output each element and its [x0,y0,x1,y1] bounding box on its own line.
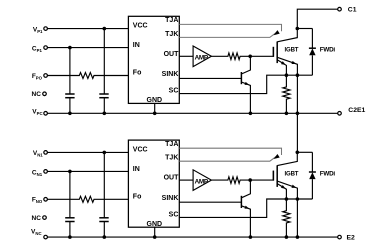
svg-text:P1: P1 [37,29,43,34]
svg-text:NC: NC [32,215,42,222]
svg-text:PO: PO [36,75,43,80]
svg-text:C1: C1 [348,7,357,14]
svg-text:E2: E2 [347,235,356,242]
svg-text:NC: NC [32,91,42,98]
svg-text:NO: NO [36,199,43,204]
svg-text:NC: NC [35,231,41,236]
svg-text:PC: PC [37,111,43,116]
svg-text:C2E1: C2E1 [348,107,365,114]
svg-text:N1: N1 [37,172,43,177]
svg-text:N1: N1 [37,153,43,158]
svg-text:P1: P1 [37,48,43,53]
